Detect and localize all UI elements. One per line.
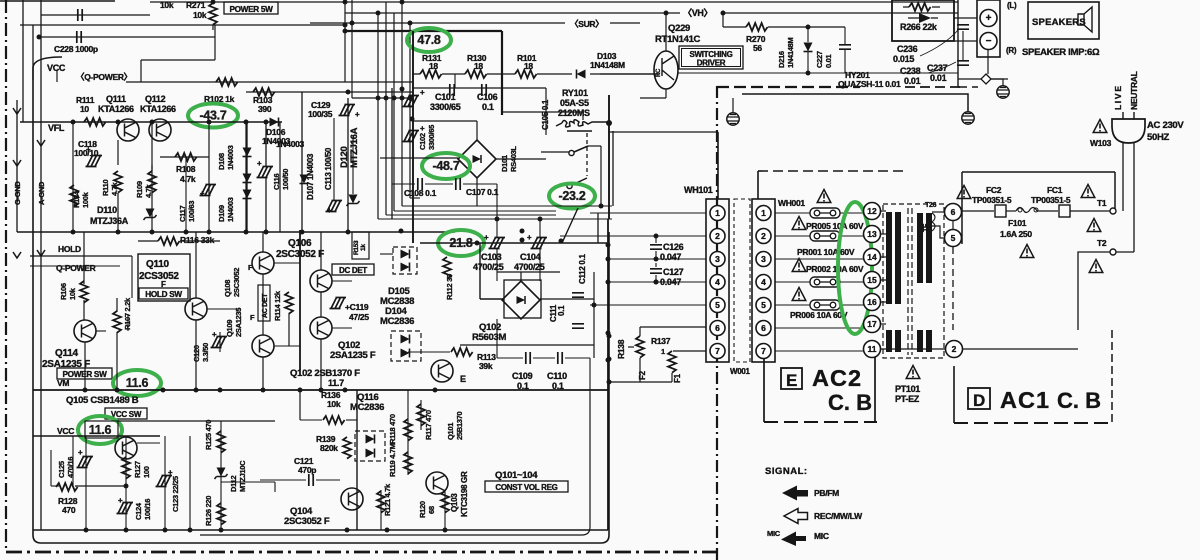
svg-text:100/35: 100/35 (308, 109, 333, 119)
svg-text:+: + (86, 145, 91, 154)
svg-text:16: 16 (867, 297, 877, 307)
junction dot VH node (599, 204, 604, 209)
wire y=266 (30, 265, 120, 267)
svg-text:+: + (212, 330, 217, 339)
svg-text:0.047: 0.047 (660, 252, 681, 262)
wire rows transistor area (96, 330, 106, 332)
svg-text:+: + (355, 110, 360, 119)
arrow outline REC/MW/LW (784, 509, 808, 524)
wire x=86 x=126 x=165 verticals (85, 436, 87, 530)
connector WH101 pin 4 (710, 275, 725, 290)
transformer pin 12 (864, 203, 881, 220)
wire x=215 vertical (214, 25, 216, 60)
wire Q229 collector up (665, 13, 667, 51)
wire left vertical x=23 (22, 0, 24, 122)
wire pin2 right elbow up (962, 348, 1078, 350)
svg-text:(L): (L) (1007, 1, 1017, 10)
resistor R113 (451, 348, 473, 356)
junction dots misc (495, 217, 500, 222)
wire x=546 vertical C105 (545, 88, 547, 135)
svg-text:2: 2 (761, 231, 766, 241)
svg-text:PB/FM: PB/FM (814, 488, 839, 498)
svg-text:R112 39: R112 39 (445, 274, 454, 300)
svg-text:7: 7 (715, 346, 720, 356)
svg-text:E: E (460, 374, 466, 384)
capacitor C107 (456, 178, 460, 190)
capacitor C124 (117, 503, 134, 514)
wire y=79 row (412, 73, 420, 75)
transistor Q109 (252, 335, 274, 357)
wire C120 stub (219, 332, 221, 352)
capacitor C105 rotated label (482, 84, 486, 96)
svg-text:-43.7: -43.7 (200, 109, 227, 123)
svg-text:PR002 10A 60V: PR002 10A 60V (806, 264, 864, 274)
wire x=357 vertical (356, 390, 358, 530)
dots top rails (343, 23, 348, 28)
label VCC SW box (105, 408, 147, 419)
fuse PR006 row (810, 300, 840, 310)
wire pin5 elbow (932, 226, 944, 238)
bridge D101 output wire (496, 158, 546, 160)
wire Q106 chain (320, 232, 322, 270)
green tall annotation ellipse 60V column (838, 202, 872, 334)
connector WH101 pin 1 (710, 206, 725, 221)
label SWITCHING DRIVER double box (679, 46, 743, 69)
svg-text:100: 100 (142, 466, 151, 478)
resistor R114 (285, 292, 293, 314)
capacitor C119 (330, 298, 347, 309)
svg-text:PR005 10A 60V: PR005 10A 60V (806, 221, 864, 231)
junction dots bottom rail (84, 528, 89, 533)
wire amp to connector (954, 17, 977, 19)
wire x=353 zener column (352, 135, 354, 194)
wires F1 F2 bottom (639, 358, 641, 382)
svg-text:470/16: 470/16 (66, 457, 75, 478)
rail y=245 (420, 242, 607, 244)
AC2 dashed left border (763, 358, 765, 422)
arrow solid PB/FM (782, 486, 808, 501)
svg-text:C106: C106 (477, 92, 498, 102)
svg-text:6: 6 (761, 323, 766, 333)
capacitor C127 (650, 269, 662, 273)
border dash horizontal y=86 right of HY201 (905, 86, 960, 88)
svg-text:100/50: 100/50 (281, 169, 290, 190)
fuse F101 squiggle (1016, 208, 1037, 213)
svg-text:6: 6 (715, 323, 720, 333)
svg-text:C227: C227 (815, 51, 824, 68)
svg-text:C102: C102 (418, 133, 427, 150)
wire x=594 vertical (593, 272, 595, 358)
capacitor on y=15 stub (78, 9, 82, 21)
wire y=184 (392, 183, 415, 185)
wire Q110 emitter down (195, 320, 197, 390)
svg-text:1k: 1k (360, 244, 367, 251)
wire Q108 chain (262, 232, 264, 252)
svg-text:+: + (78, 448, 83, 457)
svg-text:KTA1266: KTA1266 (98, 104, 134, 114)
svg-text:C123 22/25: C123 22/25 (171, 476, 180, 512)
svg-text:+: + (527, 233, 532, 242)
wire Q105 collector (137, 442, 160, 444)
VCC rail y=436 (33, 435, 160, 437)
wire y=358 (497, 357, 523, 359)
wire pin6 to bars (932, 211, 944, 213)
label D boxed (968, 388, 990, 409)
wire R106 up to rail (83, 232, 85, 284)
svg-text:1.6A 250: 1.6A 250 (1000, 229, 1032, 239)
wire x=392 vertical bridge left (391, 88, 393, 219)
junction dots top bus (343, 0, 348, 5)
capacitor C109 (526, 352, 530, 364)
speaker connector minus pin (980, 33, 997, 50)
svg-text:R106: R106 (59, 283, 68, 300)
svg-text:10k: 10k (160, 0, 174, 10)
svg-text:REC/MW/LW: REC/MW/LW (814, 511, 863, 521)
svg-text:F101: F101 (1008, 218, 1027, 228)
capacitor C101 (403, 96, 420, 107)
wire R106 to Q114 (83, 300, 85, 320)
warning triangle FC2 (957, 186, 971, 199)
wire column x=266 (265, 122, 267, 167)
svg-text:+: + (420, 124, 425, 133)
svg-text:MC2836: MC2836 (380, 316, 414, 327)
svg-text:3300/65: 3300/65 (427, 125, 436, 150)
svg-text:0.1: 0.1 (552, 381, 564, 391)
svg-text:C. B: C. B (1057, 388, 1101, 413)
transformer core dashes (907, 208, 909, 355)
svg-text:18: 18 (429, 61, 438, 71)
wire Q229 base (600, 73, 654, 75)
plug prongs (1122, 112, 1124, 119)
svg-text:0.1: 0.1 (482, 102, 494, 112)
transformer pin 11 (864, 341, 881, 358)
svg-text:2SC3052: 2SC3052 (232, 268, 241, 297)
fuse PR002 row (792, 259, 806, 272)
AC2 block dash top border (758, 170, 905, 172)
label POWER SW box (224, 2, 278, 14)
svg-text:4: 4 (715, 277, 720, 287)
svg-text:Q103: Q103 (450, 493, 459, 512)
svg-text:68: 68 (427, 506, 436, 514)
svg-text:C236: C236 (897, 44, 918, 54)
fuse PR005 row (817, 190, 831, 203)
svg-text:Q229: Q229 (668, 23, 690, 34)
node T1 (1110, 208, 1116, 214)
wire x=334 (333, 118, 335, 200)
svg-text:R137: R137 (651, 336, 671, 346)
svg-text:10: 10 (80, 104, 89, 114)
svg-text:R126 220: R126 220 (204, 496, 213, 526)
node chevron G-GND arrows (13, 108, 21, 258)
svg-text:4: 4 (761, 277, 766, 287)
svg-text:R109: R109 (135, 181, 144, 198)
label HOLD SW box (139, 288, 188, 299)
svg-text:D216: D216 (777, 51, 786, 68)
diode D216 (804, 43, 813, 52)
resistor R106 (80, 281, 88, 303)
svg-text:C127: C127 (663, 267, 684, 277)
wire x=73 vertical (72, 122, 74, 232)
svg-text:390: 390 (258, 104, 272, 114)
svg-text:2SC3052 F: 2SC3052 F (284, 516, 330, 527)
label SPEAKERS box (1028, 2, 1099, 39)
svg-text:(R): (R) (1006, 46, 1017, 55)
wire into WH101 top (717, 132, 719, 199)
svg-text:KTA1266: KTA1266 (140, 104, 176, 114)
svg-text:TP00351-5: TP00351-5 (1031, 195, 1071, 205)
capacitor C102 (403, 131, 420, 142)
svg-text:A-GND: A-GND (37, 181, 46, 205)
connector W001 pin 5 (756, 298, 771, 313)
resistor R109 (148, 171, 156, 193)
AC plug symbol (1112, 119, 1145, 143)
wires center verticals to caps (496, 184, 498, 238)
svg-text:L I V E: L I V E (1113, 86, 1123, 110)
green annotation 11.6 on VCC rail (78, 416, 122, 444)
label AC DET rotated box (258, 285, 270, 321)
capacitor C123 (156, 476, 173, 487)
fuse holder FC2 (995, 205, 1006, 217)
svg-text:MIC: MIC (814, 531, 829, 541)
wire x=963 vertical (962, 31, 964, 60)
wire into bridge D102 left (479, 243, 481, 299)
wire y=94 to ground (742, 94, 968, 111)
resistor R110 (114, 171, 122, 193)
transformer pin 5 circle (945, 230, 962, 247)
wire C125 bracket (50, 450, 52, 486)
svg-text:R110: R110 (101, 180, 110, 196)
resistor R118 (404, 419, 412, 441)
svg-text:+: + (420, 88, 425, 97)
wire minus pin down (987, 49, 989, 74)
zener D120 (347, 195, 360, 207)
svg-text:SIGNAL:: SIGNAL: (765, 466, 808, 477)
svg-text:-48.7: -48.7 (433, 159, 460, 173)
resistor R270 (746, 23, 768, 31)
svg-text:R116 33k: R116 33k (180, 235, 215, 245)
transformer pin 14 (864, 249, 881, 266)
wire x=497 bridge down (496, 319, 498, 358)
wire y=345 rail (460, 344, 594, 346)
bridge D101 bottom vertical (476, 178, 478, 206)
svg-text:+: + (327, 206, 332, 215)
svg-text:C112 0.1: C112 0.1 (578, 254, 587, 284)
wire live down to T1 (1122, 143, 1124, 211)
svg-text:0.01: 0.01 (824, 54, 833, 68)
wire R107 top (116, 298, 118, 312)
svg-text:DRIVER: DRIVER (697, 59, 726, 68)
main inner board outline rounded (33, 57, 609, 543)
svg-text:Q101: Q101 (446, 423, 455, 440)
svg-text:Q108: Q108 (223, 280, 232, 297)
vertical bus lines x=378..412 (377, 13, 379, 219)
wire x=502 vertical (501, 31, 503, 115)
connector WH101 pin 5 (710, 298, 725, 313)
diode D108 (243, 148, 252, 157)
speaker connector body (977, 0, 1000, 57)
svg-text:10k: 10k (327, 399, 341, 409)
svg-text:W103: W103 (1090, 138, 1112, 148)
vertical pair x=609 x=613 (608, 95, 610, 219)
wire left vertical x=17 (16, 100, 18, 232)
opto diodes dash-dot box (391, 331, 421, 361)
warning triangle below F101 (1020, 245, 1034, 258)
svg-text:F: F (248, 263, 253, 272)
svg-text:C101: C101 (435, 92, 456, 102)
warning triangle W103 (1093, 120, 1107, 133)
wire y=79 speaker return (958, 78, 1008, 80)
resistor R111 body (84, 118, 106, 126)
svg-text:4.7k: 4.7k (180, 174, 196, 184)
svg-text:D: D (973, 391, 985, 410)
svg-text:R271: R271 (186, 0, 206, 10)
resistor R271 (209, 3, 217, 25)
wire Q114 collector down (84, 342, 86, 390)
svg-text:KTC3198 GR: KTC3198 GR (460, 471, 469, 517)
svg-text:TF: TF (923, 223, 930, 232)
svg-text:E: E (786, 371, 797, 390)
capacitor C227top (839, 45, 851, 49)
svg-text:R119 4.7M: R119 4.7M (388, 443, 397, 477)
bus y=98 segment with dots (352, 97, 412, 99)
svg-text:18: 18 (524, 61, 533, 71)
border dash-dot bottom edge (6, 551, 717, 554)
svg-text:VFL: VFL (48, 123, 65, 133)
diagonal pointer from -23.2 ellipse (562, 208, 578, 243)
svg-text:+: + (986, 13, 992, 24)
wire y=121 into bridge top (412, 120, 477, 122)
connector WH101 pin 3 (710, 252, 725, 267)
zener D110 (144, 209, 157, 221)
svg-text:F2: F2 (638, 370, 647, 380)
transistor Q112 (149, 119, 171, 141)
connector WH101 pin 7 (710, 344, 725, 359)
wire left vertical x=41 (40, 0, 42, 530)
AC2 dashed bottom border (764, 421, 877, 423)
junction dot C129 column (346, 90, 351, 95)
relay switch contact upper (574, 146, 588, 152)
pointer curve C236 (920, 30, 958, 56)
svg-text:0.047: 0.047 (660, 277, 681, 287)
wire y=120 coil top (582, 112, 584, 120)
capacitor C110 (558, 352, 562, 364)
connector WH101 pin 6 (710, 321, 725, 336)
svg-text:10k: 10k (68, 287, 77, 300)
svg-text:1N4003: 1N4003 (226, 197, 235, 222)
transformer tap wires (881, 210, 886, 212)
svg-text:100k: 100k (81, 191, 90, 208)
svg-text:2: 2 (952, 344, 957, 354)
resistor R153 boxed (352, 232, 369, 259)
svg-text:R120: R120 (418, 501, 427, 518)
wire switch commons (541, 151, 569, 153)
svg-text:D109: D109 (217, 205, 226, 222)
svg-text:25B1370: 25B1370 (455, 412, 464, 440)
heavy vertical x=598 (597, 213, 599, 243)
connector W001 pin 7 (756, 344, 771, 359)
svg-text:D101: D101 (500, 155, 509, 172)
warning triangle right (1087, 219, 1101, 232)
wire y=60 (141, 59, 215, 61)
wire column x=152 upper (151, 122, 153, 171)
wire D112 output (221, 481, 275, 483)
svg-text:MC2836: MC2836 (350, 402, 384, 413)
svg-text:R266 22k: R266 22k (900, 22, 938, 32)
svg-text:R121 4.7k: R121 4.7k (383, 483, 392, 516)
svg-text:C228 1000p: C228 1000p (54, 44, 98, 54)
svg-text:Q114: Q114 (55, 348, 78, 359)
AC1 upper block outline (962, 172, 1115, 244)
svg-text:+: + (257, 159, 262, 168)
wire x=57 VCC stub (56, 71, 58, 82)
transformer pin 15 (864, 272, 881, 289)
wire column x=247 segments (246, 122, 248, 232)
junction dots rail y=232 (71, 230, 76, 235)
arrow half MIC (781, 532, 806, 547)
warning triangle PT101 (906, 366, 920, 379)
capacitor C228 (39, 36, 215, 38)
svg-text:100/63: 100/63 (187, 201, 196, 222)
heavy rail y=232 (17, 231, 455, 233)
transformer squiggle (932, 213, 935, 231)
transistor Q111 (117, 119, 139, 141)
resistor R121 (377, 491, 385, 513)
resistor R138 (636, 336, 644, 358)
wire y=82 Q-POWER rail (126, 81, 412, 83)
inner board outline second line bottom right (200, 392, 590, 535)
svg-text:Q110: Q110 (146, 259, 169, 270)
warning triangle below T2 (1089, 260, 1103, 273)
svg-text:WH101: WH101 (684, 185, 713, 195)
svg-text:PT-EZ: PT-EZ (895, 394, 920, 404)
wire y=132 relay to connector (609, 131, 718, 133)
svg-text:R118 470: R118 470 (388, 414, 397, 444)
transistor Q103 (426, 472, 448, 494)
svg-text:0.015: 0.015 (893, 54, 914, 64)
svg-text:C108 0.1: C108 0.1 (404, 188, 437, 198)
svg-text:C126: C126 (663, 242, 684, 252)
border dash-dot left edge (5, 0, 7, 552)
svg-text:G-GND: G-GND (13, 181, 22, 205)
svg-text:1: 1 (761, 208, 766, 218)
svg-text:2120MS: 2120MS (558, 108, 590, 118)
svg-text:〈SUR〉: 〈SUR〉 (570, 19, 603, 29)
svg-text:VM: VM (57, 378, 69, 388)
svg-text:F1: F1 (673, 373, 682, 383)
capacitor C236 symbol (957, 25, 969, 29)
svg-text:TP00351-5: TP00351-5 (972, 195, 1012, 205)
svg-text:Q-POWER: Q-POWER (56, 263, 96, 273)
svg-text:CONST VOL REG: CONST VOL REG (495, 483, 557, 492)
svg-text:Q102 2SB1370 F: Q102 2SB1370 F (290, 368, 360, 379)
svg-text:FC1: FC1 (1047, 185, 1063, 195)
svg-text:HOLD: HOLD (58, 244, 81, 254)
diode D103 (577, 70, 586, 79)
border dash horizontal y=87 (717, 86, 860, 88)
svg-text:PR006 10A 60V: PR006 10A 60V (790, 310, 848, 320)
svg-text:15: 15 (867, 275, 877, 285)
junction dot relay to bus (606, 120, 612, 126)
resistor R126 (217, 503, 225, 525)
wire y=25 top left (20, 24, 345, 26)
svg-text:〈VH〉: 〈VH〉 (683, 8, 712, 18)
transistor Q101 with E label (431, 360, 453, 382)
wire from AC1 left edge down (953, 243, 962, 245)
label POWER SW box (57, 368, 112, 379)
arrow R266 (919, 13, 931, 23)
heavy vertical wire x=300 (299, 230, 301, 370)
svg-text:RT1N141C: RT1N141C (655, 34, 701, 45)
